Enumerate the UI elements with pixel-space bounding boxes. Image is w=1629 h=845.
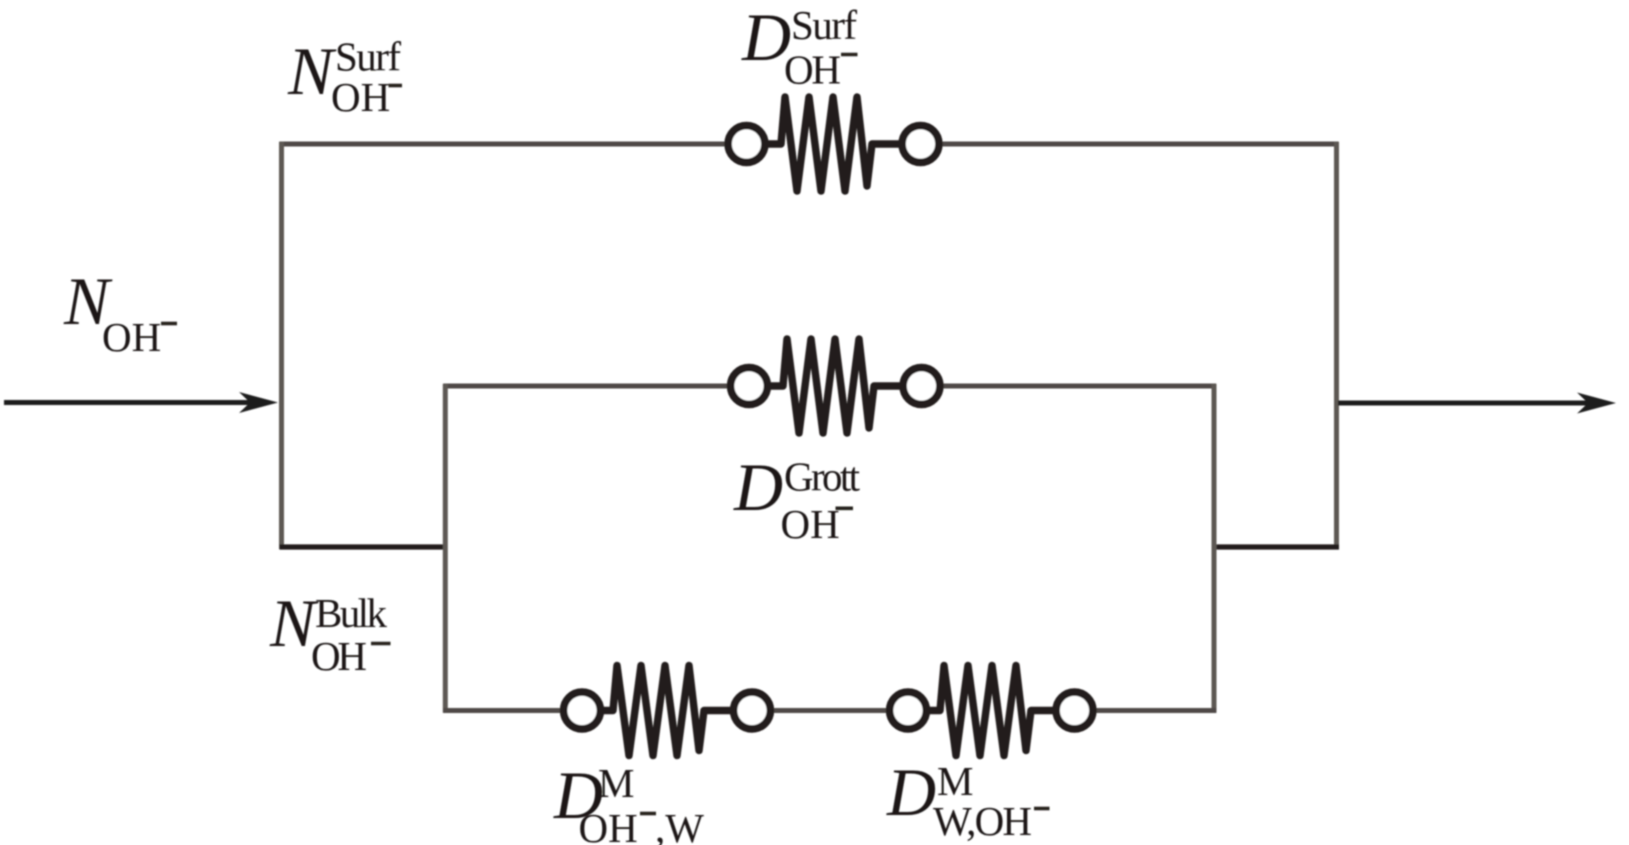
wire: outer box bottom-right connector (1212, 544, 1339, 549)
label: node N OH- (input flux) (63, 263, 177, 360)
wire: outer box right vertical (1334, 142, 1339, 550)
svg-text:W,OH: W,OH (933, 798, 1032, 844)
resistor R4 (D M W,OH-) zigzag (928, 666, 1054, 756)
wire: outer box bottom-left connector (280, 544, 448, 549)
output flux arrow shaft (1338, 401, 1590, 406)
wire: outer box left vertical (279, 142, 284, 550)
svg-text:OH: OH (781, 501, 840, 547)
svg-text:OH: OH (102, 314, 161, 360)
svg-text:Grott: Grott (784, 454, 861, 500)
resistor R2 left terminal circle (731, 368, 768, 405)
svg-text:OH: OH (331, 74, 390, 120)
svg-text:D: D (886, 754, 936, 830)
resistor R3 right terminal circle (734, 692, 771, 729)
resistor R3 (D M OH-,W) zigzag (602, 666, 732, 756)
resistor R1 left terminal circle (728, 126, 765, 163)
wire: inner bottom horizontal (middle segment) (772, 708, 888, 713)
wire: inner bulk-branch middle horizontal (right segment) (942, 384, 1216, 389)
input flux arrow head (239, 392, 278, 413)
svg-text:OH: OH (579, 805, 638, 845)
label: N Surf OH- (surface branch flux) (287, 33, 402, 120)
label: D Grott OH- (Grotthuss diffusion coefficient, resistor R2 value) (733, 449, 861, 547)
svg-text:N: N (287, 33, 337, 109)
svg-text:OH: OH (311, 633, 367, 679)
label: N Bulk OH- (bulk branch flux) (269, 585, 391, 679)
resistor R1 (D Surf OH-) zigzag (767, 97, 900, 191)
svg-text:Bulk: Bulk (315, 590, 388, 636)
svg-text:Surf: Surf (335, 34, 401, 80)
output flux arrow head (1577, 393, 1616, 414)
svg-text:M: M (598, 760, 634, 806)
wire: inner box left vertical (443, 384, 448, 713)
wire: inner bulk-branch middle horizontal (left segment) (443, 384, 728, 389)
wire: inner bottom horizontal (left segment) (443, 708, 562, 713)
wire: outer surface-branch top horizontal (left segment) (280, 142, 727, 147)
svg-text:OH: OH (784, 47, 841, 93)
wire: inner bottom horizontal (right segment) (1095, 708, 1216, 713)
svg-text:Surf: Surf (791, 2, 857, 48)
resistor R4 right terminal circle (1056, 692, 1093, 729)
input flux arrow shaft (4, 400, 252, 405)
resistor R2 (D Grott OH-) zigzag (769, 339, 902, 433)
label: D Surf OH- (surface diffusion coefficient, resistor R1 value) (741, 0, 858, 93)
wire: outer surface-branch top horizontal (right segment) (941, 142, 1339, 147)
resistor R4 left terminal circle (890, 692, 927, 729)
svg-text:,W: ,W (655, 805, 704, 845)
wire: inner box right vertical (1212, 384, 1217, 713)
resistor R3 left terminal circle (564, 692, 601, 729)
label: D M W,OH- (molecular diffusion coefficient, resistor R4 value) (886, 754, 1050, 844)
svg-text:D: D (733, 449, 783, 525)
resistor R2 right terminal circle (903, 368, 940, 405)
resistor R1 right terminal circle (902, 126, 939, 163)
label: D M OH-,W (molecular diffusion coefficient, resistor R3 value) (553, 757, 704, 845)
